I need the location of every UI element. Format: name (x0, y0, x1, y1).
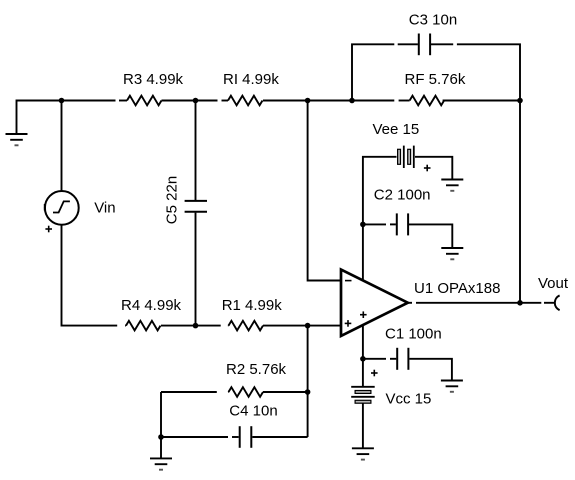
svg-text:C3 10n: C3 10n (409, 12, 457, 29)
resistor R1 4.99k (229, 321, 264, 331)
capacitor C2 plates (397, 213, 408, 235)
resistor RF 5.76k (410, 96, 445, 106)
wire main top net from ground to RF output (17, 101, 521, 135)
capacitor C1 plates (397, 348, 408, 370)
node C4 ground (158, 434, 164, 440)
wire bottom net R4 R1 to op-amp plus input (125, 325, 341, 327)
node output (517, 300, 523, 306)
svg-text:R3 4.99k: R3 4.99k (123, 71, 184, 88)
node inverting top (305, 98, 311, 104)
source Vin circle (45, 191, 79, 225)
resistor R4 4.99k (126, 321, 161, 331)
svg-text:Vout: Vout (538, 275, 569, 292)
ground (Vee) (441, 180, 463, 191)
wire noninverting node down to R2 C4 (307, 326, 309, 437)
battery Vee 15 plates (398, 146, 414, 168)
battery Vcc plus sign (371, 370, 378, 377)
node C5 bottom (193, 323, 199, 329)
svg-text:RF 5.76k: RF 5.76k (405, 71, 466, 88)
svg-text:C1 100n: C1 100n (385, 326, 442, 343)
wire C2 net (363, 224, 452, 248)
resistor R3 4.99k (127, 96, 162, 106)
ground (C1) (441, 381, 463, 392)
source Vin left tick (44, 204, 46, 211)
battery Vee plus sign (424, 165, 431, 172)
capacitor C5 plates (185, 201, 207, 212)
node C2 left (360, 222, 366, 228)
svg-text:RI 4.99k: RI 4.99k (223, 71, 279, 88)
terminal Vout arc (555, 295, 560, 310)
node feedback right (517, 98, 523, 104)
node C5 top (193, 98, 199, 104)
svg-text:C2 100n: C2 100n (374, 187, 431, 204)
capacitor C5 vertical wire (195, 101, 197, 326)
wire Vee supply loop (363, 157, 452, 281)
op-amp plus supply sign (360, 311, 367, 318)
capacitor C4 plates (240, 426, 252, 448)
wire C4 net (161, 392, 308, 437)
node C1 Vcc (360, 356, 366, 362)
wire R2 net (161, 391, 308, 393)
wire op-amp output to Vout (408, 302, 555, 304)
node C3 left (349, 98, 355, 104)
resistor RI 4.99k (228, 96, 263, 106)
op-amp minus input sign (345, 280, 352, 282)
node Vin top (59, 98, 65, 104)
svg-text:R2 5.76k: R2 5.76k (226, 361, 287, 378)
svg-text:R1 4.99k: R1 4.99k (222, 297, 283, 314)
source Vin plus (45, 226, 52, 233)
svg-text:U1 OPAx188: U1 OPAx188 (414, 280, 500, 297)
node noninverting (305, 323, 311, 329)
op-amp plus input sign (345, 320, 352, 327)
capacitor C3 plates (419, 34, 430, 56)
ground (C2) (441, 248, 463, 259)
wire Vcc column (362, 325, 364, 449)
svg-text:C5 22n: C5 22n (164, 176, 181, 224)
op-amp U1 triangle (341, 270, 408, 336)
wire Vin vertical (62, 101, 118, 326)
wire inverting input vertical (308, 101, 341, 281)
svg-text:Vee 15: Vee 15 (373, 121, 420, 138)
capacitor C3 10n feedback loop wire (352, 44, 520, 303)
ground (Vcc) (352, 448, 374, 459)
svg-text:R4 4.99k: R4 4.99k (121, 297, 182, 314)
svg-text:C4 10n: C4 10n (229, 403, 277, 420)
ground (R2 C4 left) (150, 437, 172, 470)
svg-text:Vcc 15: Vcc 15 (386, 390, 432, 407)
ground (left, input) (6, 134, 28, 145)
node R2 right (305, 389, 311, 395)
svg-text:Vin: Vin (94, 200, 115, 217)
resistor R2 5.76k (229, 387, 264, 397)
battery Vcc 15 plates (351, 387, 375, 403)
wire C1 net (363, 359, 452, 381)
